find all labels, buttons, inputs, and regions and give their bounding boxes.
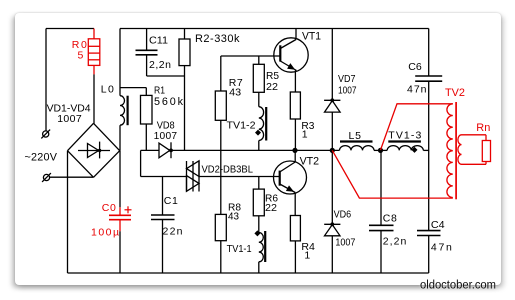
diode VD6 (331, 150, 333, 224)
svg-text:C1: C1 (164, 195, 178, 207)
capacitor C11 (146, 29, 148, 51)
wire Y1 L5 to TV1-3 segment (374, 149, 387, 151)
capacitor C0 (119, 207, 121, 215)
svg-text:2,2n: 2,2n (383, 235, 407, 247)
wire bridge left vertex down (67, 151, 69, 273)
svg-text:C8: C8 (383, 213, 397, 225)
svg-text:C6: C6 (408, 61, 422, 73)
transformer TV2 core (455, 102, 457, 199)
wire red from L5-C8 node to TV2 top (381, 104, 453, 150)
node L5-C8 junction (378, 148, 383, 153)
wire top DC rail (120, 28, 429, 30)
svg-text:R2-330k: R2-330k (195, 33, 240, 45)
svg-text:VD7: VD7 (338, 74, 356, 85)
svg-text:2,2n: 2,2n (149, 59, 171, 71)
svg-text:5: 5 (78, 49, 84, 61)
svg-text:C11: C11 (149, 34, 168, 46)
svg-text:1: 1 (302, 128, 308, 140)
resistor Rn (482, 141, 490, 162)
transistor VT1 (274, 38, 308, 72)
svg-text:VD8: VD8 (157, 120, 175, 131)
wire C0 to bottom rail (119, 231, 121, 273)
capacitor C4 (417, 230, 441, 232)
svg-text:L0: L0 (101, 83, 114, 95)
resistor R3 (290, 92, 300, 119)
svg-text:47n: 47n (407, 84, 427, 96)
svg-text:Rn: Rn (476, 122, 490, 134)
svg-text:100µ: 100µ (91, 227, 119, 239)
wire bridge right vertex up to L0 (119, 125, 121, 151)
svg-text:1007: 1007 (335, 238, 355, 249)
svg-text:22: 22 (265, 202, 277, 214)
wire bridge right vertex down to C0 (119, 151, 121, 208)
svg-text:oldoctober.com: oldoctober.com (420, 278, 496, 292)
wire Y2 left segment (141, 176, 187, 178)
capacitor C8 (380, 150, 382, 225)
svg-text:VT2: VT2 (300, 156, 320, 168)
svg-text:22n: 22n (163, 226, 183, 238)
wire L0 tap to R1 (120, 87, 146, 89)
wire Y1 middle segment (171, 149, 340, 151)
svg-text:43: 43 (229, 87, 241, 99)
resistor R4 (290, 216, 300, 241)
transformer TV2 primary (447, 104, 453, 198)
resistor R7 (220, 56, 222, 91)
wire terminal2 to bridge bottom vertex (50, 176, 94, 178)
node VT1-VT2 midpoint (292, 148, 297, 153)
resistor R2 (184, 29, 186, 40)
wire top AC rail (46, 28, 94, 30)
transistor VT2 (274, 161, 307, 194)
capacitor C6 (428, 29, 430, 77)
terminal input 1 (43, 131, 49, 137)
wire left drop to input terminal (45, 29, 47, 131)
wire right edge (428, 81, 430, 230)
diac VD2-DB3BL (186, 161, 188, 192)
inductor L0 (120, 96, 125, 125)
transformer winding TV1-1 (254, 230, 260, 236)
svg-text:1007: 1007 (154, 131, 178, 142)
svg-text:1007: 1007 (338, 85, 357, 96)
wire Y1 right segment (423, 149, 428, 151)
bridge rectifier VD1-VD4 (68, 123, 94, 150)
svg-text:22: 22 (266, 81, 278, 93)
capacitor C1 (162, 177, 164, 216)
svg-text:C0: C0 (102, 202, 116, 214)
inductor L5 (340, 146, 375, 151)
wire bottom rail (68, 272, 429, 274)
resistor R1 (145, 88, 147, 96)
svg-text:VT1: VT1 (302, 31, 321, 43)
svg-text:560k: 560k (154, 96, 184, 108)
svg-text:43: 43 (228, 211, 239, 223)
svg-text:R1: R1 (154, 84, 165, 96)
svg-text:TV2: TV2 (445, 87, 465, 99)
svg-text:47n: 47n (431, 241, 452, 253)
diode VD7 (331, 29, 333, 101)
resistor R5 (258, 56, 260, 64)
svg-text:VD6: VD6 (334, 210, 352, 221)
wire Y1 left segment (141, 149, 159, 151)
svg-text:1: 1 (304, 249, 310, 261)
wire Y2 right segment to VT2 base (199, 176, 280, 178)
svg-text:VD2-DB3BL: VD2-DB3BL (202, 164, 254, 175)
terminal input 2 (43, 174, 49, 180)
svg-text:L5: L5 (349, 130, 362, 142)
svg-text:TV1-1: TV1-1 (227, 243, 252, 255)
wire R0 to bridge top vertex (93, 74, 95, 123)
transformer winding TV1-3 (387, 146, 423, 151)
svg-text:~220V: ~220V (25, 151, 58, 163)
transformer winding TV1-2 (259, 107, 264, 141)
resistor R0 (93, 29, 95, 39)
diode VD8 (159, 143, 170, 158)
transformer TV2 secondary (458, 135, 462, 164)
resistor R6 (258, 177, 260, 190)
svg-text:TV1-2: TV1-2 (227, 119, 256, 131)
resistor R8 (215, 214, 226, 240)
svg-text:C4: C4 (431, 219, 445, 231)
node VD7-VD6 junction (330, 148, 335, 153)
wire Y1 corner down to Y2 (140, 150, 142, 176)
wire VT1 base rail (221, 55, 280, 57)
wire red from VD7-VD6 node to TV2 bottom (332, 150, 453, 198)
svg-text:TV1-3: TV1-3 (388, 130, 421, 142)
wire C11 to R2 lead (147, 75, 185, 77)
svg-text:1007: 1007 (57, 113, 82, 125)
